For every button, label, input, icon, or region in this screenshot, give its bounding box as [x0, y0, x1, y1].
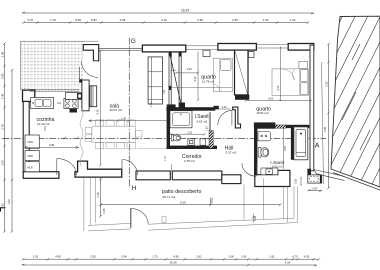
- patio boundary lines: [84, 178, 298, 232]
- dim top segments: [22, 21, 309, 24]
- dim entrance 0.87: [308, 190, 322, 192]
- wall south bar B: [136, 171, 170, 180]
- wall hall west corner: [233, 107, 241, 128]
- wall kitchen peninsula bottom: [70, 108, 78, 113]
- dim patio vertical 1.15/0.46: [99, 177, 102, 217]
- dim south gap 1.10: [170, 164, 172, 171]
- svg-text:0.47: 0.47: [28, 18, 34, 22]
- sanit2 basin: [258, 132, 271, 141]
- wall divider striped part: [275, 125, 286, 128]
- section line G-H: [128, 38, 130, 189]
- svg-text:6.02 m2: 6.02 m2: [272, 164, 283, 168]
- wall cozinha bottom: [23, 172, 59, 179]
- svg-text:0.51: 0.51: [210, 197, 214, 203]
- dim patio 9.15: [99, 203, 281, 206]
- wall top sala bar: [142, 45, 185, 52]
- svg-text:2.61: 2.61: [196, 255, 202, 259]
- svg-text:4.24: 4.24: [285, 260, 291, 264]
- svg-text:1.10: 1.10: [164, 156, 167, 161]
- svg-text:4.90: 4.90: [173, 255, 179, 259]
- svg-text:4.63 m2: 4.63 m2: [196, 120, 207, 124]
- wall sanit1 right upper thin: [209, 112, 211, 130]
- dim sanit1 2.21: [169, 133, 206, 136]
- bedside quarto2: [249, 52, 255, 58]
- dim right: [327, 43, 330, 190]
- svg-text:2.78 m2: 2.78 m2: [184, 159, 195, 163]
- svg-text:FLL: FLL: [57, 102, 62, 105]
- wall south bar D step: [222, 175, 241, 184]
- sanit1 bidet: [171, 135, 181, 141]
- svg-text:2.10: 2.10: [161, 18, 167, 22]
- neighbour building hatched: [242, 14, 380, 192]
- patio dotted hatch: [21, 41, 83, 90]
- svg-text:3.10: 3.10: [193, 76, 197, 82]
- svg-text:4.90: 4.90: [55, 255, 61, 259]
- tick A-line cozinha: [76, 137, 79, 140]
- quarto1 inner line: [169, 86, 232, 90]
- svg-text:2.78: 2.78: [0, 124, 4, 130]
- svg-text:2.56: 2.56: [120, 18, 126, 22]
- sanit2 toilet: [258, 148, 269, 158]
- svg-text:16.59: 16.59: [170, 260, 177, 264]
- svg-text:4.10: 4.10: [276, 85, 280, 91]
- wall patio L-shape: [83, 45, 98, 61]
- svg-text:0.87: 0.87: [91, 18, 97, 22]
- svg-text:3.16: 3.16: [268, 97, 274, 101]
- svg-text:1.76: 1.76: [50, 18, 56, 22]
- boundary line right: [322, 62, 324, 184]
- svg-text:4.52: 4.52: [304, 255, 310, 259]
- svg-text:25.71 m2: 25.71 m2: [162, 195, 175, 199]
- dim top overall 16.29: [22, 12, 314, 14]
- dim quarto1 1.20: [217, 108, 231, 110]
- kitchen stove: [64, 92, 78, 108]
- dim quarto2 verticals: [279, 47, 281, 102]
- svg-text:2.55: 2.55: [90, 255, 96, 259]
- dim sala 1.30: [89, 119, 168, 122]
- svg-text:16.29: 16.29: [181, 8, 189, 12]
- kitchen window: [30, 89, 80, 91]
- dim bottom segments: [22, 258, 320, 261]
- window gap1: [186, 46, 218, 50]
- svg-text:1.92: 1.92: [0, 203, 4, 209]
- svg-text:FRIG: FRIG: [28, 141, 34, 144]
- svg-text:H: H: [132, 185, 137, 192]
- dim entrance 0.30: [300, 177, 302, 187]
- wall sanit1 left: [167, 109, 170, 149]
- svg-text:11.79 m2: 11.79 m2: [202, 80, 215, 84]
- svg-text:G: G: [131, 38, 136, 45]
- closet cap top2: [179, 52, 182, 57]
- bed quarto2: [272, 61, 308, 95]
- dim bottom overall: [22, 264, 317, 267]
- door arc cozinha: [57, 159, 77, 176]
- svg-text:MLR: MLR: [28, 166, 33, 169]
- svg-text:0.46: 0.46: [323, 126, 327, 132]
- cabinet kitchen right 1: [82, 80, 89, 111]
- svg-text:1.62: 1.62: [7, 199, 11, 205]
- entrance doormat: [308, 175, 322, 183]
- patio wall pillar: [162, 216, 166, 223]
- closet cap bottom: [179, 103, 185, 109]
- wall cozinha left: [23, 90, 35, 172]
- closet blob left: [167, 104, 176, 109]
- section line A-A: [2, 137, 326, 139]
- dim left outer: [3, 42, 6, 233]
- svg-text:0.94: 0.94: [121, 255, 127, 259]
- svg-text:1.75: 1.75: [152, 255, 158, 259]
- wall cap below quartos wall: [235, 95, 249, 100]
- sanit2 pedestal sink: [261, 168, 278, 175]
- svg-text:0.90: 0.90: [0, 73, 4, 79]
- svg-text:1.04: 1.04: [163, 89, 166, 94]
- svg-text:1.15: 1.15: [96, 192, 100, 198]
- dim quarto1 vertical: [197, 52, 200, 102]
- kitchen counter sink: [31, 98, 54, 109]
- wall quarto1 bottom: [183, 107, 215, 111]
- svg-text:1.80: 1.80: [197, 18, 203, 22]
- wall kitchen-sala bar: [79, 79, 82, 82]
- dim left inner: [11, 69, 14, 233]
- door corredor-patio: [122, 160, 138, 176]
- svg-text:2.21: 2.21: [187, 130, 193, 134]
- break squiggle: [80, 109, 83, 167]
- window sala top: [99, 48, 143, 50]
- wall tub enclosure: [291, 127, 294, 160]
- svg-text:9.15: 9.15: [180, 201, 186, 205]
- svg-text:1.99: 1.99: [0, 51, 4, 57]
- wall quarto2-sanit2 divider: [254, 122, 276, 128]
- door quarto1: [218, 110, 232, 125]
- sanit2 tub: [294, 127, 308, 160]
- svg-text:1.30: 1.30: [121, 117, 127, 121]
- wall between quartos: [235, 50, 249, 95]
- svg-text:29.03 m2: 29.03 m2: [110, 108, 123, 112]
- svg-text:0.46: 0.46: [253, 215, 257, 221]
- sanit1 wc boxes: [188, 139, 206, 145]
- svg-text:3.37 m2: 3.37 m2: [226, 151, 237, 155]
- closet partition lines: [169, 52, 182, 107]
- wall sanit1 right striped: [209, 131, 213, 149]
- svg-text:1.08: 1.08: [228, 255, 234, 259]
- svg-text:1.40: 1.40: [0, 93, 4, 99]
- svg-text:0.30: 0.30: [294, 179, 297, 184]
- svg-text:1.45: 1.45: [150, 102, 153, 107]
- wall sanit2 bottom white: [255, 170, 290, 186]
- dim sanit2 vertical: [283, 128, 285, 170]
- svg-text:0.87: 0.87: [312, 187, 318, 191]
- wall top quarto1 bar: [218, 44, 257, 51]
- svg-text:1.60: 1.60: [263, 18, 269, 22]
- patio hatch boundary: [21, 41, 99, 90]
- svg-text:2.55: 2.55: [232, 18, 238, 22]
- dim quarto2 3.16: [245, 99, 313, 102]
- dim quarto1 1.90: [175, 72, 200, 75]
- svg-text:12.32 m2: 12.32 m2: [37, 122, 50, 126]
- oven black: [77, 93, 81, 100]
- closet cap top1: [169, 52, 172, 57]
- svg-text:3.16: 3.16: [283, 145, 287, 151]
- cabinet kitchen right 2: [90, 86, 97, 107]
- svg-text:0.46: 0.46: [102, 208, 106, 214]
- svg-text:1.90: 1.90: [186, 67, 192, 71]
- sanit1 basin counter: [170, 111, 192, 128]
- line corredor north edge: [137, 147, 167, 149]
- bedside quarto1: [203, 50, 210, 56]
- svg-text:1.61: 1.61: [269, 255, 275, 259]
- wall south bar C: [172, 171, 222, 180]
- dim right-mid 0.46: [252, 214, 255, 223]
- svg-text:2.50: 2.50: [324, 81, 328, 87]
- svg-text:1.20: 1.20: [221, 105, 227, 109]
- page corner mark: [1, 208, 6, 212]
- svg-text:A: A: [315, 143, 320, 150]
- door patio-bottom: [131, 208, 148, 228]
- arrow A-line cozinha wall: [25, 137, 66, 140]
- svg-text:1.91: 1.91: [241, 255, 247, 259]
- appliance FRIG: [25, 135, 39, 148]
- wall sanit2 left: [254, 125, 257, 176]
- svg-text:4.10: 4.10: [96, 109, 100, 115]
- wall sanit1 bottom: [167, 146, 217, 149]
- door swing white: [82, 61, 99, 77]
- dim patio small 0.51: [209, 198, 211, 205]
- wall entrance jamb: [307, 169, 311, 177]
- svg-text:0.99: 0.99: [75, 18, 81, 22]
- dim cozinha 2.98: [25, 146, 79, 148]
- svg-text:10.51 m2: 10.51 m2: [256, 111, 269, 115]
- svg-text:2.98: 2.98: [49, 143, 55, 147]
- svg-text:MSR: MSR: [28, 155, 34, 158]
- window gap2: [256, 45, 288, 49]
- svg-text:2.02: 2.02: [33, 255, 39, 259]
- wall south A: [75, 161, 122, 177]
- entrance step band: [314, 170, 345, 181]
- dim sala vertical: [99, 50, 102, 167]
- appliance MSR: [25, 151, 39, 161]
- bed quarto1: [213, 58, 232, 91]
- wall top quarto2 bar: [288, 44, 314, 51]
- wall right exterior: [310, 45, 314, 171]
- appliance MLR: [25, 162, 39, 172]
- svg-text:4.75: 4.75: [292, 255, 298, 259]
- line kitchen-sala: [79, 67, 81, 79]
- svg-text:4.10: 4.10: [43, 125, 47, 131]
- svg-text:1.55: 1.55: [0, 160, 4, 166]
- svg-text:1.20: 1.20: [206, 126, 209, 131]
- door sanit2: [242, 163, 257, 176]
- door arc sala-patio: [82, 61, 99, 77]
- sofa sala: [148, 57, 162, 104]
- wall sanit1 top: [166, 107, 183, 111]
- svg-text:1.43: 1.43: [290, 18, 296, 22]
- dining table group: [85, 120, 142, 149]
